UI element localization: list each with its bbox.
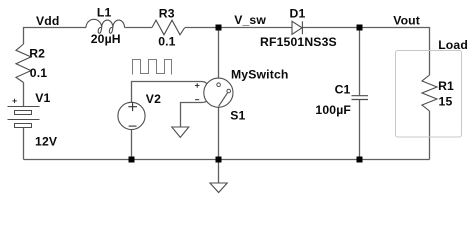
svg-text:100µF: 100µF [315, 103, 351, 117]
wire V2 minus down to rail [131, 130, 133, 160]
wire Vdd corner to L1 [24, 28, 87, 45]
pulse waveform icon [133, 60, 172, 75]
svg-text:V_sw: V_sw [234, 13, 266, 27]
resistor R3 [152, 20, 185, 35]
svg-text:R2: R2 [29, 46, 45, 60]
svg-text:12V: 12V [35, 134, 58, 148]
resistor R1 [422, 75, 437, 111]
node junction switch bottom [216, 157, 222, 163]
load box [396, 51, 462, 138]
capacitor C1 plates [352, 96, 369, 100]
svg-text:Vout: Vout [393, 14, 420, 28]
svg-text:R3: R3 [159, 6, 175, 20]
svg-text:0.1: 0.1 [158, 34, 175, 48]
V2 minus sign [129, 125, 137, 127]
wire R1 bottom to rail [429, 111, 431, 160]
wire R2 bottom to battery top [23, 83, 25, 107]
svg-text:D1: D1 [290, 6, 306, 20]
voltage source V2 [118, 102, 145, 129]
svg-text:R1: R1 [438, 79, 454, 93]
svg-text:V2: V2 [146, 92, 161, 106]
main ground [210, 183, 227, 193]
switch S1 body [204, 78, 233, 107]
svg-text:15: 15 [439, 95, 453, 109]
wire V2 plus up and right to switch control plus [132, 82, 208, 103]
wire battery bottom to rail [23, 128, 25, 160]
switch control plus sign [195, 83, 200, 100]
svg-text:0.1: 0.1 [30, 66, 47, 80]
switch control minus sign [195, 99, 199, 101]
svg-text:Vdd: Vdd [36, 14, 60, 28]
svg-text:V1: V1 [35, 91, 50, 105]
svg-text:L1: L1 [97, 6, 112, 20]
resistor R2 [16, 44, 31, 83]
battery V1 plus sign [12, 99, 16, 103]
switch S1 lever [219, 93, 228, 107]
node junction V_sw [216, 25, 222, 31]
wire rail to main ground [218, 160, 220, 184]
wire L1 to R3 [125, 27, 153, 29]
svg-text:RF1501NS3S: RF1501NS3S [260, 35, 337, 49]
inductor L1 [86, 19, 125, 33]
wire D1 cathode to Vout corner down to R1 [303, 28, 430, 76]
wire switch bottom to rail [218, 106, 220, 159]
node junction C1 top [357, 25, 363, 31]
wire switch control minus to control ground [181, 100, 208, 127]
V2 plus sign [128, 102, 137, 126]
node junction V2 bottom [129, 157, 135, 163]
diode D1 [292, 21, 302, 34]
wire C1 bottom lead [359, 100, 361, 160]
battery V1 [8, 107, 40, 128]
svg-text:20µH: 20µH [91, 32, 121, 46]
control ground [172, 127, 189, 137]
wire R3 to D1 anode through node V_sw [185, 27, 292, 29]
svg-text:Load: Load [438, 38, 468, 52]
switch S1 top contact [217, 83, 221, 87]
svg-text:MySwitch: MySwitch [231, 68, 289, 82]
node junction C1 bottom [357, 157, 363, 163]
svg-text:S1: S1 [230, 108, 245, 122]
wire bottom ground rail [24, 159, 430, 161]
svg-text:C1: C1 [335, 82, 351, 96]
wire node V_sw down to switch [218, 28, 220, 84]
switch S1 right contact [227, 89, 231, 93]
wire C1 top lead [359, 28, 361, 96]
